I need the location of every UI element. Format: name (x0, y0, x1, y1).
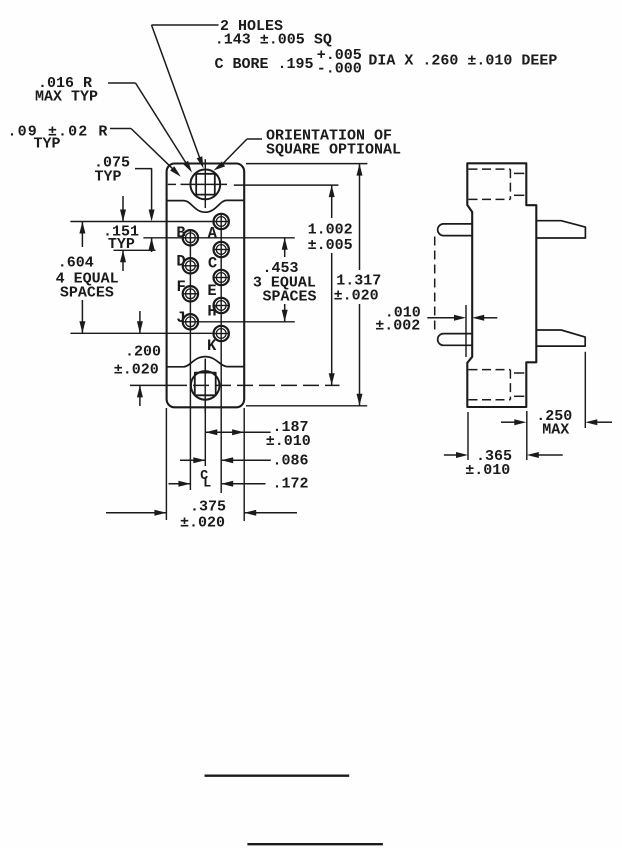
svg-text:±.020: ±.020 (180, 515, 225, 532)
dim .187 line (205, 431, 270, 433)
side view top left pin (438, 224, 473, 236)
dim .075 bracket (135, 169, 152, 210)
dim .010 left arrow (427, 317, 455, 319)
svg-text:H: H (207, 302, 216, 320)
dim .172 left (169, 483, 191, 485)
svg-text:TYP: TYP (95, 169, 122, 186)
dim .604 line upper (81, 222, 83, 248)
svg-text:TYP: TYP (108, 236, 135, 253)
leader orientation tick (247, 138, 262, 140)
bottom hole dashed horizontal centerline (130, 384, 171, 386)
separator rule 1 (205, 775, 350, 777)
svg-text:.604: .604 (58, 254, 94, 271)
dim .375 right (244, 512, 297, 514)
svg-text:±.010: ±.010 (266, 433, 311, 450)
front view body outline (167, 164, 245, 408)
leader .09 R tick (110, 128, 131, 130)
leader 2 HOLES arrow (152, 25, 202, 162)
dim .075 down arrow (149, 210, 155, 222)
dim .151 up arrow (122, 250, 124, 271)
dim .375 left (106, 512, 166, 514)
contact hole J (183, 314, 198, 329)
side view hidden line between pins (434, 237, 436, 334)
dim .250 left arrow (501, 421, 516, 423)
dim .172 right (221, 483, 265, 485)
svg-text:.172: .172 (273, 476, 309, 493)
dim .200 up arrow (139, 385, 141, 406)
svg-text:MAX: MAX (542, 422, 569, 439)
contact hole B (183, 230, 198, 245)
bottom mounting hole square (195, 373, 216, 396)
svg-text:L: L (203, 476, 211, 491)
extension line body bottom (246, 405, 367, 407)
svg-text:A: A (208, 225, 218, 243)
row extension line B left (143, 237, 182, 239)
extension line top hole center (234, 184, 339, 186)
svg-text:±.020: ±.020 (114, 362, 159, 379)
svg-text:SPACES: SPACES (60, 285, 114, 302)
svg-text:±.002: ±.002 (375, 318, 420, 335)
svg-text:SPACES: SPACES (263, 289, 317, 306)
svg-text:±.005: ±.005 (308, 237, 353, 254)
dim .365 left arrow (444, 454, 457, 456)
dim .151 down arrow (122, 196, 124, 222)
contact hole K (214, 326, 229, 341)
row extension line B right (198, 237, 294, 239)
svg-text:E: E (207, 282, 216, 300)
front view upper recess line (167, 200, 245, 212)
svg-text:K: K (207, 337, 217, 355)
leader .016 R arrow (136, 83, 187, 164)
svg-text:J: J (176, 309, 185, 327)
dim .453 line upper (284, 238, 286, 257)
contact hole H (214, 298, 229, 313)
leader 2 HOLES bracket (152, 24, 219, 26)
svg-text:-.000: -.000 (317, 61, 362, 78)
dim .200 down arrow (139, 311, 141, 333)
svg-text:SQUARE OPTIONAL: SQUARE OPTIONAL (266, 142, 401, 159)
side view body outline (467, 163, 536, 407)
dim .010 right arrow (483, 317, 497, 319)
dim 1.002 line upper (331, 185, 333, 218)
top hole vertical centerline (204, 159, 206, 208)
row extension line J (198, 321, 294, 323)
extension body left below side (467, 412, 469, 460)
svg-text:±.010: ±.010 (465, 462, 510, 479)
dim .250 extension line (584, 352, 586, 428)
row extension line A (70, 221, 213, 223)
row extension stub C (114, 249, 156, 251)
svg-text:B: B (176, 224, 185, 242)
side view top right tab (536, 221, 585, 238)
dim .453 line lower (284, 304, 286, 322)
svg-text:F: F (177, 278, 186, 296)
svg-text:C: C (208, 255, 217, 273)
dim .604 line lower (81, 300, 83, 333)
extension line body top (246, 163, 367, 165)
extension body right below (526, 411, 528, 460)
side view bottom right tab (536, 330, 585, 346)
contact hole F (183, 286, 198, 301)
svg-text:TYP: TYP (34, 136, 61, 153)
bottom mounting hole (191, 371, 220, 400)
svg-text:C BORE .195: C BORE .195 (215, 56, 314, 73)
side view hidden square top (469, 168, 511, 170)
dim 1.317 line lower (359, 304, 361, 406)
separator rule 2 (247, 843, 383, 845)
dim 1.002 line lower (331, 253, 333, 385)
svg-text:.143 ±.005 SQ: .143 ±.005 SQ (215, 31, 332, 48)
right contact column line (220, 213, 222, 493)
front centerline vertical lower (204, 359, 206, 466)
row extension line K (70, 332, 213, 334)
top mounting hole square (196, 174, 215, 195)
contact hole E (214, 270, 229, 285)
contact hole A (214, 214, 229, 229)
side view hidden square bottom (469, 369, 511, 371)
leader orientation arrow (221, 139, 247, 166)
side view hidden dash top right pair (514, 172, 524, 174)
dim .086 left (180, 459, 205, 461)
bottom hole vertical centerline (204, 359, 206, 413)
top hole centerline left dash (168, 183, 176, 185)
svg-text:DIA X .260 ±.010 DEEP: DIA X .260 ±.010 DEEP (368, 53, 557, 70)
contact hole D (183, 258, 198, 273)
leader .09 R arrow (131, 129, 173, 170)
side view hidden dash bottom right pair (514, 372, 524, 374)
svg-text:MAX TYP: MAX TYP (35, 89, 98, 106)
front view lower recess line (167, 357, 245, 367)
svg-text:.200: .200 (125, 344, 161, 361)
svg-text:±.020: ±.020 (334, 287, 379, 304)
svg-text:D: D (176, 253, 185, 271)
top hole horizontal centerline (181, 183, 228, 185)
side view bottom left pin (438, 334, 473, 346)
contact hole C (214, 242, 229, 257)
extension line body left lower (165, 408, 167, 520)
dim .086 right (221, 459, 271, 461)
dim .010 extension line (465, 305, 467, 357)
dim .365 right arrow (538, 454, 563, 456)
svg-text:.086: .086 (273, 453, 309, 470)
dim 1.317 line upper (359, 164, 361, 270)
leader .016 R tick (108, 82, 136, 84)
top mounting hole (190, 170, 220, 200)
left contact column line (189, 233, 191, 490)
svg-text:.375: .375 (190, 499, 226, 516)
dim .075 up arrow (151, 238, 153, 252)
dim .250 right arrow (596, 421, 612, 423)
extension line body right lower (243, 408, 245, 521)
